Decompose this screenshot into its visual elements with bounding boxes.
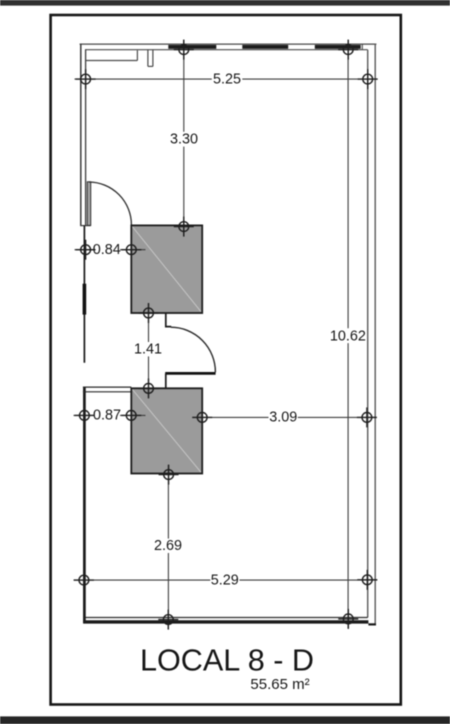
dimension 10.62 line [347, 40, 349, 629]
dimension 0.84 line [75, 249, 146, 251]
svg-text:0.84: 0.84 [93, 242, 121, 258]
crosshair dim 5.25 right [358, 69, 378, 89]
dimension 0.87 line [74, 414, 146, 416]
svg-text:3.09: 3.09 [269, 409, 297, 425]
dimension 3.30 line [183, 40, 185, 236]
partition wall above lower column: lower line [83, 391, 131, 393]
wall: right inner line [367, 50, 369, 618]
wall: left lower single line [83, 387, 86, 624]
crosshair dim 0.84 left [76, 240, 96, 260]
door D2 swing arc [171, 327, 216, 372]
dimension 3.09 line [193, 416, 377, 418]
crosshair column lower top [139, 378, 159, 398]
crosshair column upper top [174, 217, 194, 237]
top black bar [0, 0, 450, 6]
dimension 5.29 line [74, 579, 378, 581]
wall: left mid thick overlay [83, 284, 87, 315]
wall cap at door1 sill [80, 225, 91, 227]
axis crosshairs [74, 40, 378, 630]
bottom black bar [0, 716, 450, 724]
crosshair dim 5.29 left [74, 570, 94, 590]
door D1 swing arc [89, 182, 131, 225]
crosshair dim 3.09 right [357, 407, 377, 427]
svg-text:3.30: 3.30 [170, 132, 198, 148]
svg-text:5.25: 5.25 [213, 71, 241, 87]
page frame [51, 15, 401, 705]
svg-text:LOCAL 8 - D: LOCAL 8 - D [140, 644, 314, 678]
svg-text:1.41: 1.41 [134, 342, 162, 358]
svg-text:2.69: 2.69 [154, 538, 182, 554]
wall: top outer line [80, 43, 377, 45]
wall: bottom thin line [84, 617, 367, 619]
door D1 leaf (gray) [87, 182, 90, 226]
svg-text:5.29: 5.29 [211, 572, 239, 588]
crosshair dim 5.25 left [76, 69, 96, 89]
shelf right end vertical [136, 50, 138, 60]
crosshair top wall left [174, 40, 194, 60]
window glazing bar 1 [168, 45, 216, 49]
dimension 2.69 line [167, 465, 169, 630]
crosshair bottom wall right [338, 609, 358, 629]
wall: top inner line (window sill) [85, 49, 368, 51]
wall: bottom thick line [83, 620, 368, 623]
crosshair dim 0.87 right [121, 405, 141, 425]
partition wall above lower column: upper line [83, 386, 131, 388]
svg-text:10.62: 10.62 [330, 328, 366, 344]
door D2 lower jamb [165, 373, 167, 388]
svg-text:0.87: 0.87 [93, 408, 121, 424]
door D2 upper jamb [166, 313, 171, 326]
crosshair column lower bottom [159, 465, 179, 485]
door D2 leaf (thick bottom line) [165, 372, 215, 375]
dimension 5.25 line [75, 78, 378, 80]
crosshair bottom wall left [158, 610, 178, 630]
window glazing bar 3 [315, 45, 361, 49]
window glazing bar 2 [242, 45, 288, 49]
dimension 1.41 line [148, 304, 150, 399]
crosshair column upper bottom [139, 303, 159, 323]
svg-text:55.65 m²: 55.65 m² [250, 676, 309, 693]
crosshair dim 5.29 right [357, 570, 377, 590]
column upper (gray) [131, 225, 202, 313]
crosshair dim 0.84 right [121, 240, 141, 260]
shelf below top wall: bottom line [86, 60, 138, 62]
wall: left mid single line [83, 226, 85, 363]
wall: left outer line (top section) [80, 44, 82, 226]
crosshair dim 0.87 left [74, 405, 94, 425]
crosshair top wall right [338, 40, 358, 60]
column lower (gray) [131, 388, 202, 473]
wall: left inner line (top section) [85, 50, 87, 226]
notch in top wall: right line [152, 50, 154, 67]
crosshair dim 3.09 left [192, 407, 212, 427]
notch in top wall: left line [147, 50, 149, 67]
window end cap [361, 44, 363, 50]
wall: right outer line [374, 44, 376, 625]
wall: bottom outer corner piece [368, 623, 376, 625]
notch bottom cap [148, 65, 153, 67]
